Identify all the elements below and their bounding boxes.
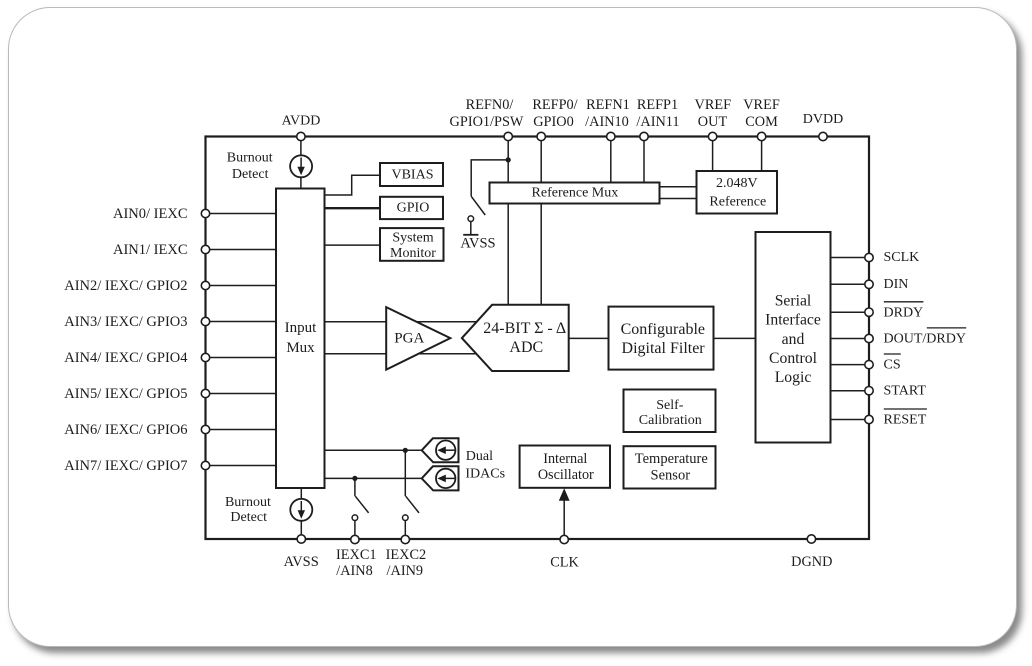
switch S-PSW blade <box>471 196 485 215</box>
IDAC1 current source symbol <box>422 438 459 462</box>
svg-text:Mux: Mux <box>286 340 315 356</box>
svg-text:Internal: Internal <box>543 451 587 467</box>
wire Serial Interface to CS pin <box>831 364 870 366</box>
current source: Burnout Detect (bottom) <box>290 499 312 521</box>
pin AIN7/IEXC/GPIO7 <box>201 461 209 469</box>
wire REFN0 pin down to ADC (under Reference Mux) <box>507 137 509 305</box>
svg-text:/AIN10: /AIN10 <box>585 114 629 130</box>
wire switch to AVSS ground <box>470 222 472 235</box>
block: 2.048V Reference <box>697 171 778 214</box>
wire IEXC1 terminal to pin <box>354 521 356 540</box>
pin REFN0/GPIO1/PSW <box>504 132 512 140</box>
svg-text:/AIN8: /AIN8 <box>336 563 373 579</box>
wire IEXC2 switch stub <box>404 450 406 496</box>
wire AIN5 to Input Mux <box>206 393 277 395</box>
wire IEXC2 terminal to pin <box>404 521 406 540</box>
pin IEXC1/AIN8 <box>351 535 359 543</box>
block: Reference Mux <box>490 183 660 204</box>
svg-text:AVSS: AVSS <box>284 554 319 570</box>
wire Configurable Digital Filter to Serial Interface <box>714 337 756 339</box>
svg-text:AVDD: AVDD <box>282 113 321 128</box>
svg-text:AIN3/ IEXC/ GPIO3: AIN3/ IEXC/ GPIO3 <box>64 314 187 330</box>
current source: Burnout Detect (top) <box>290 155 312 177</box>
svg-text:2.048V: 2.048V <box>716 176 758 191</box>
switch S-IEXC1 terminal <box>352 515 358 521</box>
svg-text:Serial: Serial <box>775 293 812 310</box>
svg-text:System: System <box>392 231 433 246</box>
wire Reference Mux to 2.048V Reference (upper) <box>660 186 697 188</box>
arrowhead CLK into oscillator <box>559 488 570 500</box>
svg-text:REFN1: REFN1 <box>586 97 630 113</box>
svg-text:Reference: Reference <box>709 195 766 210</box>
block: System Monitor <box>380 228 444 261</box>
wire AIN3 to Input Mux <box>206 321 277 323</box>
svg-text:GPIO0: GPIO0 <box>533 114 574 130</box>
svg-text:AIN5/ IEXC/ GPIO5: AIN5/ IEXC/ GPIO5 <box>64 386 187 402</box>
IDAC2 current source symbol <box>422 466 459 490</box>
svg-text:AVSS: AVSS <box>460 236 495 252</box>
svg-text:Monitor: Monitor <box>390 246 436 261</box>
svg-text:AIN2/ IEXC/ GPIO2: AIN2/ IEXC/ GPIO2 <box>64 278 187 294</box>
svg-text:DIN: DIN <box>884 277 909 292</box>
pin REFP0/GPIO0 <box>537 132 545 140</box>
switch S-IEXC2 blade <box>406 496 419 513</box>
pin AIN5/IEXC/GPIO5 <box>201 389 209 397</box>
wire Serial Interface to DIN pin <box>831 283 870 285</box>
wire CLK pin to Internal Oscillator (arrow) <box>563 497 565 540</box>
junction on IDAC2 net <box>352 476 357 481</box>
svg-text:Burnout: Burnout <box>227 151 273 166</box>
svg-text:IEXC2: IEXC2 <box>386 547 427 563</box>
block: Internal Oscillator <box>520 446 610 488</box>
pin AIN0/IEXC <box>201 209 209 217</box>
svg-text:GPIO1/PSW: GPIO1/PSW <box>450 114 524 130</box>
svg-text:Digital Filter: Digital Filter <box>622 340 706 357</box>
svg-text:Detect: Detect <box>232 167 269 182</box>
svg-text:START: START <box>884 383 927 398</box>
block: Serial Interface and Control Logic <box>756 232 831 443</box>
pin RESET <box>865 415 873 423</box>
svg-text:VBIAS: VBIAS <box>391 167 433 182</box>
block: Temperature Sensor <box>624 446 716 488</box>
svg-text:AIN6/ IEXC/ GPIO6: AIN6/ IEXC/ GPIO6 <box>64 422 187 438</box>
pin AIN6/IEXC/GPIO6 <box>201 425 209 433</box>
pin CLK <box>560 535 568 543</box>
svg-text:24-BIT Σ - Δ: 24-BIT Σ - Δ <box>483 320 566 337</box>
wire Reference Mux to 2.048V Reference (lower) <box>660 198 697 200</box>
overline for DRDY part of DOUT/DRDY label <box>927 327 966 329</box>
svg-text:Calibration: Calibration <box>639 413 702 428</box>
switch S-IEXC2 terminal <box>403 515 409 521</box>
svg-text:AIN0/ IEXC: AIN0/ IEXC <box>113 206 188 222</box>
pin DVDD <box>819 132 827 140</box>
wire VREF OUT pin to 2.048V Reference <box>712 137 714 172</box>
svg-text:Input: Input <box>285 320 317 336</box>
wire differential signal positive: Input Mux to ADC (under PGA) <box>325 321 483 323</box>
wire AIN4 to Input Mux <box>206 357 277 359</box>
pin START <box>865 387 873 395</box>
wire Input Mux to IDAC1 <box>325 449 422 451</box>
svg-text:IEXC1: IEXC1 <box>336 547 377 563</box>
IC package boundary <box>206 137 870 540</box>
ground symbol AVSS (power switch) <box>463 234 478 236</box>
pin SCLK <box>865 253 873 261</box>
pin AVDD <box>297 132 305 140</box>
svg-text:Reference Mux: Reference Mux <box>532 186 619 201</box>
svg-text:ADC: ADC <box>509 339 543 356</box>
pin DIN <box>865 280 873 288</box>
svg-text:DGND: DGND <box>791 554 832 570</box>
wire AIN7 to Input Mux <box>206 465 277 467</box>
amplifier PGA <box>386 307 450 370</box>
svg-text:Logic: Logic <box>775 369 812 386</box>
block: Input Mux <box>276 189 325 489</box>
svg-text:CLK: CLK <box>550 555 579 571</box>
overline for CS label <box>884 353 901 355</box>
svg-text:Sensor: Sensor <box>651 468 691 484</box>
wire REFN1 pin to Reference Mux <box>610 137 612 183</box>
pin VREF OUT <box>708 132 716 140</box>
svg-text:Dual: Dual <box>466 449 493 464</box>
wire Input Mux bottom to AVSS pin <box>300 488 302 539</box>
pin AIN3/IEXC/GPIO3 <box>201 317 209 325</box>
svg-text:AIN1/ IEXC: AIN1/ IEXC <box>113 242 188 258</box>
svg-text:REFP0/: REFP0/ <box>532 97 577 113</box>
svg-text:PGA: PGA <box>394 331 424 347</box>
wire AIN1 to Input Mux <box>206 249 277 251</box>
pin REFP1/AIN11 <box>640 132 648 140</box>
svg-text:IDACs: IDACs <box>465 466 505 481</box>
svg-text:SCLK: SCLK <box>884 250 920 265</box>
svg-text:AIN4/ IEXC/ GPIO4: AIN4/ IEXC/ GPIO4 <box>64 350 188 366</box>
svg-text:/AIN9: /AIN9 <box>387 563 424 579</box>
svg-text:AIN7/ IEXC/ GPIO7: AIN7/ IEXC/ GPIO7 <box>64 458 187 474</box>
pin AVSS <box>297 535 305 543</box>
svg-text:/AIN11: /AIN11 <box>636 114 679 130</box>
wire differential signal negative: Input Mux to ADC (under PGA) <box>325 353 483 355</box>
svg-text:REFN0/: REFN0/ <box>466 97 514 113</box>
overline for RESET label <box>884 408 927 410</box>
block: Self-Calibration <box>624 390 716 433</box>
svg-text:REFP1: REFP1 <box>637 97 678 113</box>
wire Serial Interface to DOUT/DRDY pin <box>831 338 870 340</box>
pin DRDY <box>865 308 873 316</box>
block: 24-BIT sigma-delta ADC <box>462 305 569 371</box>
svg-text:Control: Control <box>769 350 818 367</box>
wire Input Mux to System Monitor <box>325 244 381 246</box>
junction on REFN0 net <box>506 157 511 162</box>
wire Serial Interface to START pin <box>831 390 870 392</box>
svg-text:Configurable: Configurable <box>621 321 705 338</box>
svg-text:CS: CS <box>884 358 901 373</box>
svg-text:Temperature: Temperature <box>635 451 708 467</box>
svg-text:Detect: Detect <box>230 510 267 525</box>
wire Input Mux to GPIO (bus) <box>325 207 381 209</box>
wire REFP1 pin to Reference Mux <box>643 137 645 183</box>
switch S-PSW terminal <box>468 216 474 222</box>
block: VBIAS <box>380 163 443 186</box>
svg-text:DOUT/DRDY: DOUT/DRDY <box>884 332 966 347</box>
svg-text:Interface: Interface <box>765 312 821 329</box>
overline for DRDY label <box>884 301 924 303</box>
svg-text:GPIO: GPIO <box>397 200 430 215</box>
switch S-IEXC1 blade <box>355 496 368 513</box>
wire AIN0 to Input Mux <box>206 213 277 215</box>
wire Serial Interface to SCLK pin <box>831 257 870 259</box>
pin VREF COM <box>757 132 765 140</box>
pin IEXC2/AIN9 <box>401 535 409 543</box>
svg-text:DVDD: DVDD <box>803 112 843 127</box>
block: GPIO <box>380 197 443 219</box>
junction on IDAC1 net <box>403 448 408 453</box>
svg-text:DRDY: DRDY <box>884 305 924 320</box>
block: Configurable Digital Filter <box>609 307 714 370</box>
pin AIN4/IEXC/GPIO4 <box>201 353 209 361</box>
svg-text:COM: COM <box>745 114 778 130</box>
wire VREF COM pin to 2.048V Reference <box>761 137 763 172</box>
wire AVDD to Input Mux top <box>300 137 302 189</box>
wire ADC to Configurable Digital Filter <box>569 337 609 339</box>
wire Input Mux to VBIAS <box>325 175 381 195</box>
pin AIN1/IEXC <box>201 245 209 253</box>
pin AIN2/IEXC/GPIO2 <box>201 281 209 289</box>
svg-text:VREF: VREF <box>695 97 732 113</box>
svg-text:Oscillator: Oscillator <box>538 467 594 483</box>
wire Input Mux to IDAC2 <box>325 477 422 479</box>
svg-text:VREF: VREF <box>743 97 780 113</box>
pin DGND <box>807 535 815 543</box>
pin REFN1/AIN10 <box>607 132 615 140</box>
svg-text:Burnout: Burnout <box>225 495 271 510</box>
wire REFP0 pin down to ADC (under Reference Mux) <box>540 137 542 305</box>
pin DOUT/DRDY <box>865 334 873 342</box>
svg-text:and: and <box>782 331 805 348</box>
pin CS <box>865 360 873 368</box>
wire IEXC1 switch stub <box>354 478 356 496</box>
wire AIN6 to Input Mux <box>206 429 277 431</box>
svg-text:OUT: OUT <box>698 114 728 130</box>
wire Serial Interface to RESET pin <box>831 419 870 421</box>
wire PSW branch to switch <box>471 160 508 196</box>
wire AIN2 to Input Mux <box>206 285 277 287</box>
svg-text:RESET: RESET <box>884 413 927 428</box>
svg-text:Self-: Self- <box>656 398 684 413</box>
wire Serial Interface to DRDY pin <box>831 311 870 313</box>
